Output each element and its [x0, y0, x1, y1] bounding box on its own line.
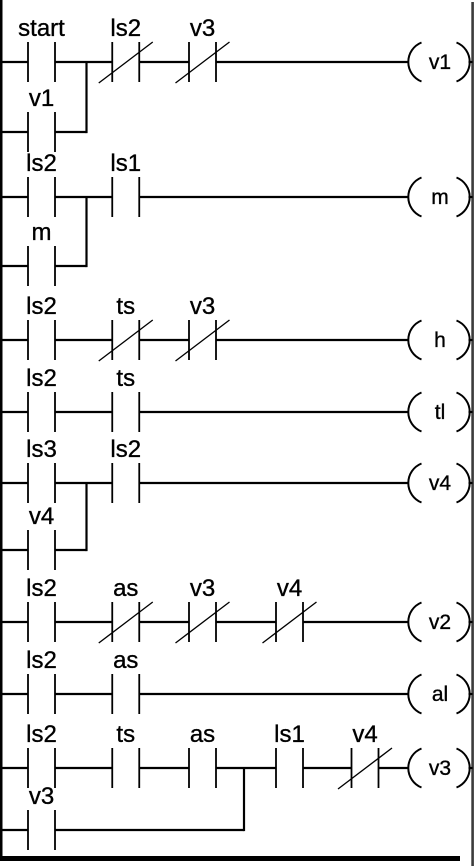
svg-text:h: h [434, 329, 446, 352]
svg-text:v1: v1 [429, 51, 451, 74]
svg-text:m: m [32, 219, 52, 246]
svg-text:v4: v4 [429, 472, 452, 495]
svg-text:ls1: ls1 [110, 150, 141, 177]
svg-text:ts: ts [116, 365, 135, 392]
svg-text:ls2: ls2 [26, 365, 57, 392]
svg-text:as: as [113, 575, 138, 602]
svg-text:ts: ts [116, 721, 135, 748]
svg-text:ts: ts [116, 293, 135, 320]
svg-text:v2: v2 [429, 611, 451, 634]
svg-text:v1: v1 [29, 85, 54, 112]
svg-text:v3: v3 [29, 783, 54, 810]
svg-text:v4: v4 [352, 721, 377, 748]
svg-text:ls2: ls2 [26, 647, 57, 674]
svg-text:as: as [113, 647, 138, 674]
svg-text:ls2: ls2 [26, 293, 57, 320]
svg-text:al: al [432, 683, 448, 706]
svg-text:m: m [431, 186, 449, 209]
svg-text:v3: v3 [190, 293, 215, 320]
svg-text:v3: v3 [190, 15, 215, 42]
svg-text:ls1: ls1 [274, 721, 305, 748]
svg-text:as: as [190, 721, 215, 748]
svg-text:ls2: ls2 [26, 721, 57, 748]
svg-text:v4: v4 [29, 503, 54, 530]
svg-text:ls2: ls2 [26, 575, 57, 602]
svg-text:ls2: ls2 [26, 150, 57, 177]
svg-text:v3: v3 [429, 757, 451, 780]
svg-text:ls3: ls3 [26, 436, 57, 463]
svg-text:start: start [18, 15, 65, 42]
svg-text:tl: tl [435, 401, 446, 424]
svg-text:v4: v4 [277, 575, 302, 602]
svg-text:ls2: ls2 [110, 15, 141, 42]
svg-text:v3: v3 [190, 575, 215, 602]
svg-text:ls2: ls2 [110, 436, 141, 463]
